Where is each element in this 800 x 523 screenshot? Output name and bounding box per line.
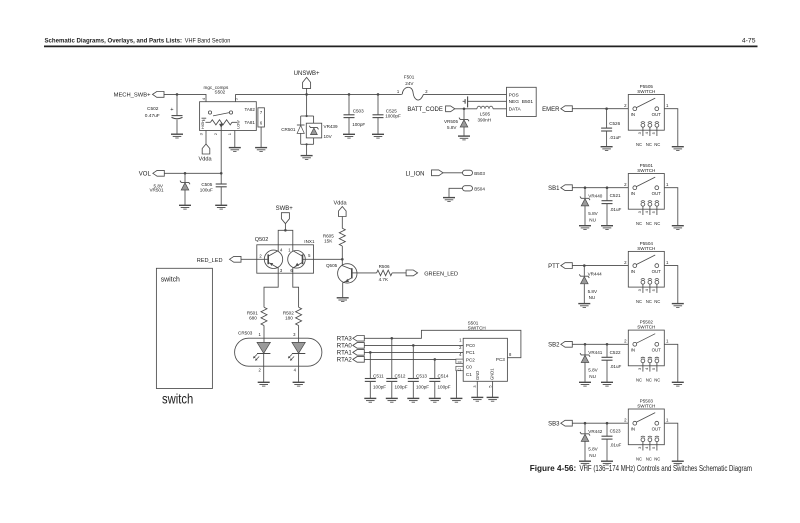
svg-text:CR503: CR503	[238, 330, 253, 335]
svg-text:C523: C523	[610, 429, 621, 434]
ground (VR444)	[578, 304, 590, 308]
svg-text:RTA1: RTA1	[337, 350, 353, 357]
zener VR444 5.8V NU	[579, 264, 602, 303]
svg-text:Figure 4-56:: Figure 4-56:	[530, 464, 577, 473]
svg-text:Q502: Q502	[255, 237, 268, 243]
ground (S501 C1)	[450, 398, 462, 402]
svg-text:SWITCH: SWITCH	[637, 325, 655, 330]
svg-text:5.8V: 5.8V	[588, 211, 598, 216]
svg-text:Schematic Diagrams, Overlays,: Schematic Diagrams, Overlays, and Parts …	[45, 37, 183, 44]
svg-text:NC: NC	[654, 456, 660, 461]
svg-text:F501: F501	[404, 74, 415, 79]
resistor R506 4.7K	[357, 264, 406, 282]
svg-text:UNSWB+: UNSWB+	[294, 71, 320, 77]
svg-text:IN: IN	[631, 426, 635, 431]
svg-text:NU: NU	[589, 295, 596, 300]
svg-text:NU: NU	[589, 217, 596, 222]
svg-text:NU: NU	[589, 374, 596, 379]
header title	[45, 37, 231, 44]
svg-text:IN: IN	[631, 191, 635, 196]
dual LED CR503	[235, 330, 322, 382]
svg-text:4.7K: 4.7K	[379, 277, 389, 282]
ground (VR440)	[579, 226, 591, 230]
svg-text:.01uF: .01uF	[610, 364, 622, 369]
wire SB1 to P5501	[572, 187, 628, 189]
ground (C505)	[215, 205, 227, 209]
ground (C522)	[601, 382, 613, 386]
svg-text:100uF: 100uF	[200, 188, 213, 193]
svg-text:C513: C513	[416, 373, 427, 378]
ground (C513)	[407, 398, 419, 402]
svg-text:100pF: 100pF	[438, 385, 451, 390]
svg-text:100pF: 100pF	[395, 385, 408, 390]
svg-text:100pF: 100pF	[416, 385, 429, 390]
svg-text:0.47uF: 0.47uF	[145, 113, 160, 119]
wire Q502 pin 6 to R502	[293, 273, 299, 307]
svg-text:NC: NC	[636, 142, 642, 147]
svg-text:SWITCH: SWITCH	[637, 89, 655, 94]
capacitor C521 .01uF	[602, 186, 622, 225]
switch label	[162, 392, 193, 407]
capacitor C505 100uF	[200, 173, 227, 205]
svg-text:VHF (136–174 MHz) Controls and: VHF (136–174 MHz) Controls and Switches …	[580, 464, 753, 473]
capacitor C502 0.47uF	[145, 94, 183, 133]
svg-text:C526: C526	[609, 121, 620, 126]
svg-text:C505: C505	[201, 182, 212, 187]
wire SB2 to P5502	[572, 343, 628, 345]
zener VR441 5.8V NU	[580, 343, 603, 382]
svg-text:VOL: VOL	[139, 172, 152, 178]
svg-text:IN: IN	[631, 269, 635, 274]
connector SB1	[548, 185, 572, 192]
svg-text:SB2: SB2	[548, 343, 560, 349]
connector RTA3	[337, 336, 365, 343]
ground (C514)	[429, 398, 441, 402]
svg-text:390nH: 390nH	[478, 118, 492, 123]
wire S502 pin 5 to rail	[235, 94, 237, 101]
svg-text:15K: 15K	[324, 238, 333, 243]
connector pad B504	[463, 186, 486, 192]
svg-text:.01uF: .01uF	[610, 207, 622, 212]
svg-text:PC2: PC2	[466, 357, 475, 362]
svg-text:NU: NU	[589, 453, 596, 458]
svg-text:NC: NC	[636, 221, 642, 226]
svg-text:OUT: OUT	[652, 112, 662, 117]
svg-text:SB3: SB3	[548, 421, 560, 427]
svg-text:GREEN_LED: GREEN_LED	[424, 271, 458, 277]
wire PTT to P5504	[572, 265, 628, 267]
svg-text:24V: 24V	[405, 81, 414, 86]
ground (C503)	[343, 134, 355, 138]
connector VOL	[139, 170, 165, 177]
svg-text:VR505: VR505	[444, 119, 458, 124]
wire P5503 OUT to ground	[664, 423, 678, 461]
svg-text:4-75: 4-75	[742, 37, 756, 44]
svg-text:switch: switch	[162, 392, 193, 407]
wire S501 C1 to ground	[455, 371, 457, 398]
svg-text:MECH_SWB+: MECH_SWB+	[114, 93, 151, 99]
ground (P5503 OUT)	[672, 461, 684, 465]
svg-text:PTT: PTT	[548, 264, 560, 270]
wire LI_ION to B503	[443, 172, 463, 174]
svg-text:5.8V: 5.8V	[588, 447, 598, 452]
svg-text:B501: B501	[522, 99, 534, 105]
svg-text:TA81: TA81	[245, 120, 256, 125]
capacitor C525 1000pF	[373, 93, 401, 134]
capacitor C514 100pF	[429, 359, 450, 398]
wire BATT_CODE node	[455, 108, 477, 111]
svg-text:OUT: OUT	[652, 269, 662, 274]
wire fuse to B501 POS	[423, 93, 506, 95]
wire RED_LED to Q502 pin 2	[241, 258, 257, 260]
svg-text:PC0: PC0	[466, 343, 475, 348]
svg-text:NC: NC	[654, 142, 660, 147]
ground (CR501/VR439)	[301, 156, 313, 160]
wire S501 GND pin 3	[473, 381, 477, 397]
svg-text:NC: NC	[636, 299, 642, 304]
svg-text:VR442: VR442	[588, 429, 602, 434]
switch S501	[456, 321, 512, 382]
connector RED_LED	[197, 256, 241, 264]
switch block outline	[156, 268, 212, 388]
pushbutton switch P5503	[624, 399, 669, 462]
svg-text:1000pF: 1000pF	[385, 114, 401, 119]
svg-text:100pF: 100pF	[373, 385, 386, 390]
wire rail S502 to fuse	[236, 93, 402, 95]
svg-text:POS: POS	[509, 93, 519, 99]
svg-text:3: 3	[473, 385, 477, 387]
svg-text:NC: NC	[636, 456, 642, 461]
wire SWB+ to Q502 pins 4/1	[278, 230, 293, 245]
svg-text:LI_ION: LI_ION	[405, 172, 424, 178]
ground (P5504 OUT)	[672, 304, 684, 308]
pushbutton switch P5505	[624, 84, 669, 147]
zener VR440 5.8V NU	[580, 186, 603, 225]
svg-text:SWITCH: SWITCH	[637, 246, 655, 251]
wire S501 GND1 pin 5	[489, 381, 493, 397]
wire RTA0 to S501 PC0	[364, 344, 463, 347]
ground (C511)	[364, 398, 376, 402]
svg-text:C503: C503	[353, 109, 364, 114]
svg-text:.01uF: .01uF	[610, 443, 622, 448]
svg-text:Q505: Q505	[326, 263, 338, 268]
svg-text:NC: NC	[654, 299, 660, 304]
ground (C523)	[601, 461, 613, 465]
ground (P5502 OUT)	[672, 382, 684, 386]
zener VR505 5.8V	[444, 109, 469, 136]
svg-text:NC: NC	[646, 221, 652, 226]
svg-text:NEG: NEG	[509, 99, 520, 105]
zener VR501 5.8V	[149, 173, 190, 205]
svg-text:.01uF: .01uF	[609, 135, 621, 140]
svg-text:L505: L505	[480, 111, 491, 116]
ground (C512)	[386, 398, 398, 402]
ground (S502 pin 6)	[255, 148, 267, 152]
svg-text:RTA0: RTA0	[337, 343, 353, 350]
svg-text:C502: C502	[147, 106, 159, 112]
wire SB3 to P5503	[572, 422, 628, 424]
power Vdda (S502 pin 3)	[199, 131, 213, 163]
power Vdda (R605)	[334, 201, 348, 229]
power UNSWB+	[294, 71, 320, 96]
wire P5502 OUT to ground	[664, 344, 678, 382]
svg-text:VR440: VR440	[588, 193, 602, 198]
svg-text:R506: R506	[379, 264, 390, 269]
connector RTA1	[337, 350, 365, 357]
svg-text:BATT_CODE: BATT_CODE	[407, 107, 443, 113]
ground (C526)	[601, 147, 613, 151]
svg-text:RED_LED: RED_LED	[197, 258, 223, 264]
svg-text:VR501: VR501	[149, 188, 163, 193]
svg-text:NC: NC	[654, 221, 660, 226]
capacitor C522 .01uF	[602, 343, 622, 382]
svg-text:C0: C0	[458, 360, 462, 364]
resistor R502 180	[283, 307, 302, 342]
svg-text:5.8V: 5.8V	[588, 368, 598, 373]
wire RTA3 to S501 PC3 (top route)	[364, 330, 521, 357]
wire S502 wiper to VOL node	[220, 127, 222, 173]
svg-text:OUT: OUT	[652, 348, 662, 353]
zener VR442 5.8V NU	[580, 422, 603, 461]
svg-text:NC: NC	[646, 142, 652, 147]
connector BATT_CODE	[407, 106, 454, 113]
ground (VR441)	[579, 382, 591, 386]
page number 4-75	[742, 37, 756, 44]
connector EMER	[542, 106, 572, 113]
svg-text:C521: C521	[610, 193, 621, 198]
connector GREEN_LED	[406, 270, 458, 277]
ground (Q505)	[337, 298, 349, 302]
ground (S501 GND1)	[487, 397, 499, 401]
wire RTA1 to S501 PC1	[364, 351, 463, 354]
svg-text:SWB+: SWB+	[276, 206, 294, 212]
svg-text:S502: S502	[215, 90, 226, 95]
wire VOL node	[164, 172, 222, 175]
svg-text:VR441: VR441	[588, 350, 602, 355]
ground (C525)	[372, 134, 384, 138]
ground (C521)	[601, 226, 613, 230]
svg-text:INX1: INX1	[304, 239, 315, 244]
svg-text:5.8V: 5.8V	[447, 125, 457, 130]
connector PTT	[548, 263, 572, 270]
svg-text:NC: NC	[646, 456, 652, 461]
svg-text:PC1: PC1	[466, 350, 475, 355]
connector RTA0	[337, 343, 365, 350]
connector pad B503	[463, 170, 486, 176]
svg-text:10V: 10V	[324, 134, 333, 139]
wire Q502 pin 5 to Q505	[314, 258, 344, 261]
svg-text:IN: IN	[631, 348, 635, 353]
power SWB+	[276, 206, 294, 232]
wire S502 pin 1 to ground	[234, 131, 236, 148]
pushbutton switch P5504	[624, 241, 669, 304]
wire Q502 pin 3 to R501	[264, 273, 278, 307]
svg-text:Vdda: Vdda	[334, 201, 348, 207]
connector RTA2	[337, 357, 365, 364]
transistor pair Q502 / INX1	[255, 237, 315, 273]
wire B504 to ground	[449, 188, 463, 197]
diode CR501 / zener VR439 network	[281, 94, 338, 155]
svg-text:C0: C0	[466, 365, 472, 370]
svg-text:680: 680	[249, 315, 257, 320]
capacitor C503 100pF	[344, 93, 366, 134]
ground (VR505)	[458, 136, 470, 140]
svg-text:C511: C511	[373, 373, 384, 378]
svg-text:HIGH: HIGH	[201, 120, 205, 129]
svg-text:5.8V: 5.8V	[588, 289, 598, 294]
wire P5501 OUT to ground	[664, 188, 678, 226]
svg-text:GND1: GND1	[490, 368, 495, 380]
ground (P5501 OUT)	[672, 226, 684, 230]
ground (CR503 pin 4)	[293, 382, 305, 386]
ground (VR442)	[579, 461, 591, 465]
svg-text:DATA: DATA	[509, 107, 522, 113]
svg-text:NC: NC	[646, 378, 652, 383]
svg-text:IN: IN	[631, 112, 635, 117]
svg-text:C1: C1	[466, 372, 472, 377]
ground (B504)	[443, 198, 455, 202]
svg-text:C512: C512	[395, 373, 406, 378]
svg-text:5: 5	[489, 385, 493, 387]
ground (P5505 OUT)	[672, 147, 684, 151]
wire EMER to P5505	[572, 108, 628, 110]
svg-text:LOW: LOW	[236, 120, 240, 129]
svg-text:TA82: TA82	[245, 107, 256, 112]
resistor R501 680	[247, 307, 267, 342]
svg-text:OUT: OUT	[652, 426, 662, 431]
capacitor C513 100pF	[408, 345, 429, 398]
svg-text:C514: C514	[438, 373, 449, 378]
svg-text:NC: NC	[654, 378, 660, 383]
svg-text:NC: NC	[646, 299, 652, 304]
capacitor C511 100pF	[365, 352, 386, 398]
connector SB3	[548, 420, 572, 427]
capacitor C523 .01uF	[602, 422, 622, 461]
svg-text:NC: NC	[636, 378, 642, 383]
resistor R605 15K	[323, 228, 345, 259]
wire P5504 OUT to ground	[664, 266, 678, 304]
svg-text:PC3: PC3	[496, 357, 505, 362]
wire S502 pin 6 to ground	[260, 127, 262, 147]
battery cell symbol (NEG)	[463, 96, 507, 107]
figure caption	[530, 464, 752, 473]
svg-text:switch: switch	[161, 274, 180, 283]
capacitor C512 100pF	[386, 338, 407, 398]
svg-text:RTA2: RTA2	[337, 357, 353, 364]
svg-text:100pF: 100pF	[352, 122, 365, 127]
ground (CR503 pin 2)	[258, 382, 270, 386]
capacitor C526 .01uF	[601, 107, 621, 146]
svg-text:SWITCH: SWITCH	[468, 326, 486, 331]
wire P5505 OUT to ground	[664, 109, 678, 147]
svg-text:EMER: EMER	[542, 107, 560, 113]
ground (C502)	[171, 134, 183, 138]
inductor L505 390nH	[477, 106, 507, 122]
svg-text:CR501: CR501	[281, 127, 296, 132]
fuse F501 24V	[397, 74, 428, 100]
svg-text:180: 180	[285, 315, 293, 320]
svg-text:VR439: VR439	[324, 124, 338, 129]
svg-text:SWITCH: SWITCH	[637, 403, 655, 408]
svg-text:RTA3: RTA3	[337, 336, 353, 343]
svg-text:+: +	[170, 107, 173, 113]
svg-text:VR444: VR444	[588, 271, 602, 276]
ground (S501 GND)	[471, 397, 483, 401]
connector MECH_SWB+	[114, 92, 164, 99]
switch S502 mgc_comps	[199, 85, 265, 135]
wire MECH_SWB+ rail to S502 pin 4	[164, 93, 206, 102]
connector LI_ION	[405, 170, 443, 178]
ground (VR501)	[179, 205, 191, 209]
svg-text:C522: C522	[610, 350, 621, 355]
pushbutton switch P5502	[624, 320, 669, 383]
svg-text:SWITCH: SWITCH	[637, 168, 655, 173]
svg-text:C1: C1	[458, 367, 462, 371]
pushbutton switch P5501	[624, 163, 669, 226]
svg-text:GND: GND	[475, 371, 480, 380]
connector SB2	[548, 341, 572, 348]
svg-text:B503: B503	[474, 171, 485, 176]
svg-text:VHF Band Section: VHF Band Section	[185, 37, 231, 44]
svg-text:SB1: SB1	[548, 186, 560, 192]
svg-text:Vdda: Vdda	[199, 157, 213, 163]
transistor Q505	[326, 259, 357, 297]
svg-text:OUT: OUT	[652, 191, 662, 196]
header rule	[44, 45, 758, 47]
battery connector B501	[507, 87, 537, 116]
ground (S502 pin 1)	[229, 148, 241, 152]
wire RTA2 to S501 PC2	[364, 358, 463, 361]
svg-text:B504: B504	[474, 187, 485, 192]
